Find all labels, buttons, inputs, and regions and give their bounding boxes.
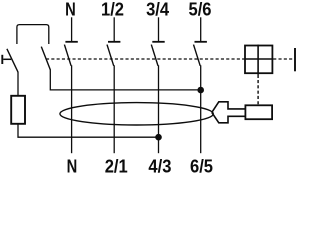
pole 5/6 switch blade [194,45,201,66]
pole N switch blade [64,45,71,66]
junction dot on pole 5/6 [197,87,204,94]
test circuit top wire loop [17,25,49,44]
resistor R test [11,96,25,124]
trip relay square [245,46,272,74]
pole 1/2 top terminal stub [113,17,115,41]
pole 3/4 fixed contact bar [152,41,164,43]
pole 3/4 switch blade [151,45,158,66]
wire resistor to pole 3/4 [18,124,159,137]
mechanical linkage dashed line [46,58,244,60]
dashed link trip unit to coil [257,74,259,78]
pole 1/2 conductor wire [113,65,115,153]
svg-text:6/5: 6/5 [190,156,213,174]
pole 5/6 fixed contact bar [195,41,207,43]
svg-text:4/3: 4/3 [148,156,171,174]
pole 1/2 switch blade [107,45,114,66]
trip relay cross vertical [257,45,259,74]
wire button to resistor [17,72,19,96]
trip relay cross horizontal [244,58,273,60]
test contact blade [41,47,50,70]
pole 1/2 fixed contact bar [108,41,120,43]
pole 5/6 conductor wire [200,65,202,153]
svg-text:N: N [65,0,76,20]
pole N fixed contact bar [65,41,77,43]
test pushbutton blade [7,49,18,72]
pole 3/4 conductor wire [158,65,160,153]
test pushbutton stem [3,58,11,60]
trip coil [245,105,272,119]
CT secondary fork connector [212,102,245,123]
actuator bar right edge [294,48,296,71]
svg-text:N: N [67,156,78,174]
test pushbutton cap [1,55,3,64]
svg-text:1/2: 1/2 [101,0,124,20]
pole N top terminal stub [71,17,73,41]
mechanical linkage dashed line right of trip unit [273,58,293,60]
svg-text:2/1: 2/1 [105,156,128,174]
svg-text:5/6: 5/6 [188,0,211,20]
pole 3/4 top terminal stub [158,17,160,41]
current transformer core ellipse [60,103,213,125]
junction dot on pole 3/4 [155,134,162,141]
pole N conductor wire [71,65,73,153]
wire test contact to pole 5/6 [50,69,200,90]
pole 5/6 top terminal stub [200,17,202,41]
svg-text:3/4: 3/4 [146,0,169,20]
